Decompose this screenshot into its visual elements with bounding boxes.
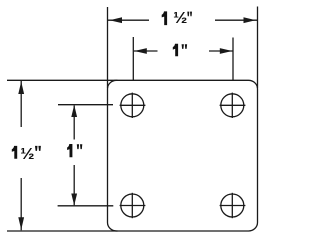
extension line bottom of left 1-1/2in dimension: [7, 230, 118, 232]
dimension line left 1-1/2in upper segment: [20, 81, 22, 127]
arrowhead up of inner 1in: [71, 105, 77, 117]
extension line top of left 1-1/2in dimension: [7, 79, 118, 81]
dimension line left 1-1/2in lower segment: [20, 178, 22, 230]
dimension line inner 1in upper segment: [73, 106, 75, 140]
label 1-1/2 inch left: [12, 145, 41, 162]
plate outline: [108, 80, 258, 231]
extension line bottom of inner 1in dimension: [58, 205, 114, 207]
extension line right of top 1-1/2in dimension: [257, 7, 259, 89]
label 1 inch top: [173, 44, 187, 56]
hole bottom-right: [220, 193, 246, 218]
extension line left of top 1-1/2in dimension: [107, 7, 109, 88]
dimension line top 1in right segment: [209, 50, 233, 52]
svg-text:½: ½: [20, 145, 34, 162]
hole top-left: [120, 93, 146, 118]
dimension line top 1-1/2in right segment: [215, 19, 257, 21]
label 1-1/2 inch top: [162, 10, 192, 27]
arrowhead left of top 1in: [134, 48, 147, 54]
hole bottom-left: [120, 193, 146, 218]
extension line left of top 1in dimension: [132, 37, 134, 81]
svg-text:½: ½: [173, 10, 187, 27]
label 1 inch left: [67, 144, 82, 157]
dimension line inner 1in lower segment: [73, 165, 75, 205]
dimension line top 1-1/2in left segment: [108, 19, 149, 21]
arrowhead down of left 1-1/2in: [18, 217, 24, 230]
extension line right of top 1in dimension: [232, 38, 234, 81]
arrowhead down of inner 1in: [71, 194, 77, 206]
hole top-right: [220, 93, 246, 118]
extension line top of inner 1in dimension: [58, 104, 113, 106]
arrowhead right of top 1-1/2in: [244, 17, 257, 23]
arrowhead up of left 1-1/2in: [18, 82, 24, 95]
arrowhead right of top 1in: [220, 48, 233, 54]
arrowhead left of top 1-1/2in: [110, 17, 123, 23]
dimension line top 1in left segment: [134, 50, 158, 52]
